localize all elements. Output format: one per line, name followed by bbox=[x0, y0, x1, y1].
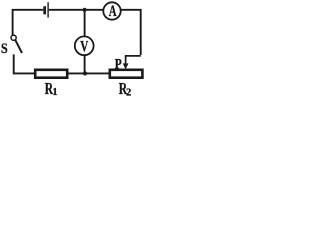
svg-text:1: 1 bbox=[52, 87, 57, 97]
wire bottom left segment from R1 to switch bbox=[14, 54, 35, 73]
battery B1 bbox=[45, 2, 48, 17]
node junction on bottom wire bbox=[83, 71, 87, 75]
voltmeter V1 bbox=[75, 36, 94, 55]
svg-text:2: 2 bbox=[126, 88, 131, 97]
svg-text:S: S bbox=[1, 40, 8, 56]
label R2 bbox=[119, 80, 131, 99]
label R1 bbox=[45, 80, 58, 99]
rheostat slider arrowhead bbox=[123, 63, 129, 69]
wire ammeter to top-right corner and right drop bbox=[121, 10, 141, 55]
resistor R2 rheostat body bbox=[110, 70, 143, 78]
wire voltmeter bottom lead bbox=[84, 55, 86, 73]
svg-text:V: V bbox=[80, 37, 88, 54]
wire top-left segment and left drop to switch bbox=[13, 10, 44, 35]
wire battery to ammeter bbox=[49, 9, 104, 11]
svg-text:A: A bbox=[109, 2, 117, 20]
ammeter A1 bbox=[103, 2, 120, 19]
wire bottom middle segment R1 to junction to R2 bbox=[68, 72, 109, 74]
node junction on top wire bbox=[83, 8, 87, 12]
wire voltmeter top lead bbox=[84, 10, 86, 37]
rheostat slider arm wire bbox=[126, 56, 141, 64]
resistor R1 bbox=[35, 70, 67, 78]
svg-text:P: P bbox=[115, 55, 122, 72]
switch S bbox=[11, 35, 22, 53]
